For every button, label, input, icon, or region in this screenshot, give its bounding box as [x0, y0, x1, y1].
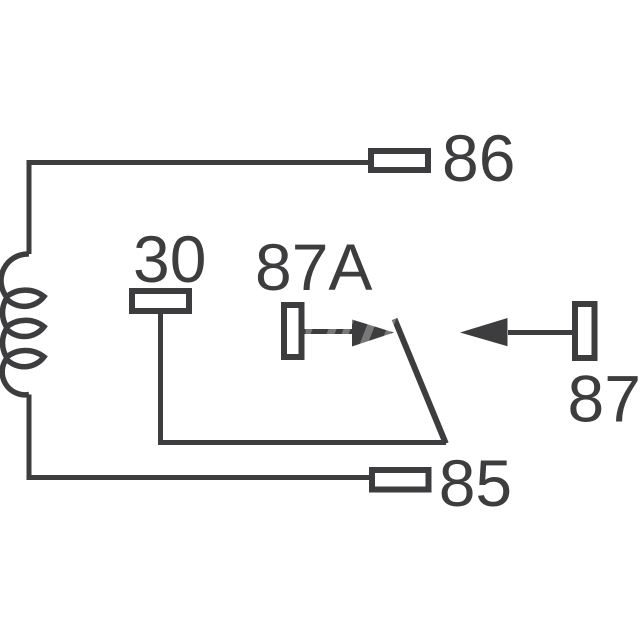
svg-text:86: 86: [442, 121, 515, 195]
svg-text:85: 85: [439, 446, 512, 520]
svg-text:30: 30: [133, 222, 206, 296]
svg-text:87A: 87A: [255, 230, 372, 304]
svg-text:87: 87: [568, 362, 640, 436]
